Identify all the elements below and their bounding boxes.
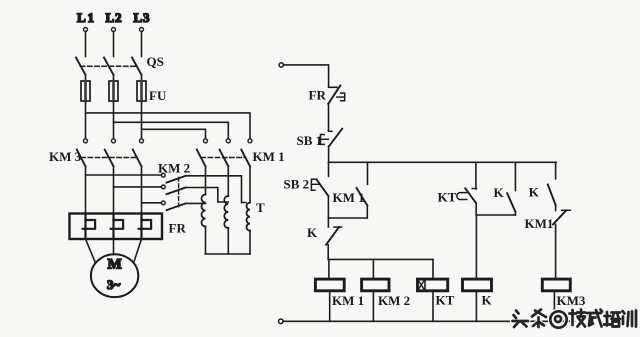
wire KM1 coil to bottom bus [329, 291, 331, 322]
contact K NO (first) [494, 162, 516, 212]
contact KM1 auxiliary NO (self-holding) [333, 162, 368, 205]
contactor KM3 main contacts [49, 139, 144, 167]
node L2 [106, 10, 122, 32]
wire KM3 coil to bottom bus [553, 291, 555, 322]
svg-text:T: T [256, 200, 265, 215]
svg-text:SB 1: SB 1 [297, 133, 323, 148]
coil KM2 [362, 279, 411, 308]
svg-text:L: L [106, 10, 115, 25]
wire KM3 pole3 to FR [141, 166, 143, 213]
wire KM1 NC to KM3 coil [555, 224, 557, 279]
terminal control top [279, 63, 283, 67]
wire K contact2 down [555, 205, 557, 211]
glyph @ [550, 311, 566, 327]
wire QS to FU (pole 1) [85, 75, 87, 82]
svg-text:KM3: KM3 [557, 293, 586, 308]
coil KM1 [315, 279, 364, 308]
svg-text:FU: FU [149, 88, 167, 103]
wire KM1 aux junction [328, 217, 367, 219]
glyph 训 [623, 311, 637, 327]
thermal relay FR heater box [70, 214, 187, 240]
wire KM3 pole1 to FR [85, 166, 87, 213]
motor M [91, 254, 138, 297]
svg-text:3: 3 [143, 10, 150, 25]
svg-text:KT: KT [438, 190, 457, 205]
coil K [463, 279, 493, 307]
wire drop to KM1 coil [328, 259, 330, 279]
wire T coil3 to star bar [249, 231, 251, 254]
contact KT time-delay [438, 162, 477, 204]
wire branch L2 to KM1 pole2 [114, 122, 229, 138]
svg-text:L: L [77, 10, 86, 25]
svg-text:K: K [494, 185, 505, 200]
coil KT (time relay) [418, 279, 455, 307]
wire phase3 to KM2 contact3 [142, 202, 162, 204]
svg-text:KM 3: KM 3 [49, 149, 82, 164]
wire L1 to QS [85, 32, 87, 57]
glyph 成 [587, 310, 602, 327]
wire phase1 to KM2 contact1 [86, 174, 162, 176]
contactor KM1 main contacts [197, 139, 285, 167]
wire bus right corner down [555, 162, 557, 179]
svg-text:K: K [307, 225, 318, 240]
wire KM1 aux down [366, 206, 368, 219]
terminal control bottom [279, 319, 284, 324]
wire bus to SB2 [328, 162, 330, 176]
watermark 头条@技成培训 [513, 310, 637, 328]
wire FU1 down to KM3 pole1 [85, 102, 87, 139]
node L3 [134, 10, 151, 32]
svg-text:1: 1 [88, 10, 95, 25]
svg-text:FR: FR [169, 221, 187, 236]
wire FR to SB1 [328, 104, 330, 131]
contact K NC [307, 225, 342, 245]
contact K NO (second) [529, 185, 556, 206]
pushbutton SB1 NC [297, 129, 343, 148]
wire control top [284, 65, 329, 87]
wire K contact1 down [514, 212, 516, 215]
wire KT/K junction [476, 214, 515, 216]
wire L2 to QS [113, 32, 115, 57]
wire KM2 contact2 to coil T2 [186, 188, 229, 203]
svg-text:KM 1: KM 1 [253, 149, 285, 164]
wire K NC to lower bus [327, 245, 329, 260]
wire KM1 pole2 to T coil2 [227, 166, 229, 196]
switch QS [76, 54, 164, 75]
wire SB2 down [327, 196, 329, 218]
thermal element FR phase2 [111, 214, 123, 240]
wire coil feed bus [328, 258, 433, 260]
svg-text:K: K [482, 293, 493, 308]
wire FR to motor (left) [86, 239, 96, 263]
wire QS to FU (pole 2) [113, 75, 115, 82]
svg-text:K: K [529, 185, 540, 200]
svg-text:SB 2: SB 2 [284, 177, 310, 192]
wire branch L1 to KM1 pole3 [86, 113, 251, 139]
svg-text:2: 2 [115, 10, 122, 25]
wire KM2 coil to bottom bus [372, 291, 374, 322]
wire KM1 pole3 to T coil3 [249, 166, 251, 202]
svg-text:3~: 3~ [107, 277, 121, 292]
glyph 条 [532, 310, 546, 328]
wire L3 to QS [141, 32, 143, 57]
svg-text:QS: QS [147, 54, 164, 69]
pushbutton SB2 NO [284, 177, 329, 197]
wire KM2 contact3 to coil T1 [186, 202, 206, 204]
transformer T coil 1 [202, 195, 206, 227]
wire KT contact down [475, 203, 477, 215]
wire SB1 to bus [328, 147, 330, 163]
svg-text:FR: FR [309, 88, 327, 103]
svg-text:KM 2: KM 2 [378, 293, 410, 308]
wire control bottom bus [283, 320, 574, 322]
wire FR to motor (right) [134, 239, 142, 262]
wire FU2 down to KM3 pole2 [113, 102, 115, 139]
contact KM1 NC interlock [525, 210, 571, 231]
coil KM3 [542, 279, 586, 308]
wire control bus upper [329, 161, 557, 163]
wire KM3 pole2 to FR [113, 166, 115, 213]
svg-text:L: L [134, 10, 143, 25]
transformer T coil 3 [247, 200, 266, 231]
wire KM1 pole1 to T coil1 [205, 166, 207, 194]
svg-text:M: M [108, 257, 122, 273]
transformer T coil 2 [224, 196, 228, 228]
wire FR to motor (middle) [113, 239, 115, 255]
wire T coil2 to star bar [227, 228, 229, 254]
wire down to K coil [475, 215, 477, 279]
wire KM2 contact1 to coil T3 [186, 176, 246, 203]
wire QS to FU (pole 3) [141, 75, 143, 82]
wire drop to KT coil [432, 259, 434, 279]
wire K coil to bottom bus [475, 291, 477, 322]
wire branch L3 to KM1 pole1 [142, 129, 206, 138]
wire phase2 to KM2 contact2 [114, 186, 162, 188]
fuse FU (pole 2) [109, 81, 118, 101]
wire drop to KM2 coil [372, 259, 374, 279]
wire star point bar [206, 253, 251, 255]
wire to K contact [327, 218, 329, 227]
wire KT coil to bottom bus [432, 291, 434, 322]
contactor KM2 contacts [158, 161, 190, 211]
svg-text:KM 1: KM 1 [332, 293, 364, 308]
svg-text:KT: KT [436, 293, 455, 308]
glyph 技 [570, 310, 586, 327]
node L1 [77, 10, 94, 32]
thermal element FR phase1 [83, 214, 95, 240]
svg-text:KM1: KM1 [525, 216, 554, 231]
glyph 培 [604, 312, 620, 327]
fuse FU (pole 1) [81, 81, 90, 101]
fuse FU (pole 3) [137, 81, 167, 103]
wire FU3 down to KM3 pole3 [141, 102, 143, 139]
wire T coil1 to star bar [205, 227, 207, 255]
contact FR NC (thermal relay) [309, 86, 345, 104]
svg-text:KM 1: KM 1 [333, 190, 365, 205]
thermal element FR phase3 [139, 214, 151, 240]
glyph 头 [513, 311, 529, 328]
